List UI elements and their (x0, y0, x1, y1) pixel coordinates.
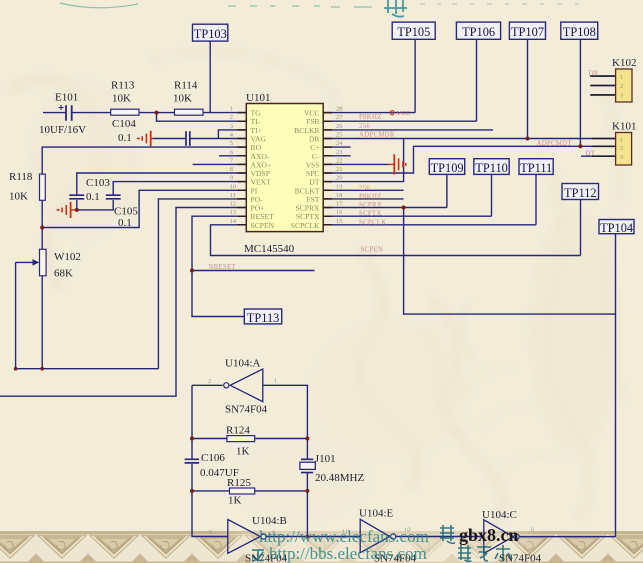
watermark row 2: bbs.elecfans.com (252, 550, 264, 561)
svg-text:gbx8.cn: gbx8.cn (459, 525, 519, 545)
top cut-off watermark remnants (60, 3, 372, 8)
svg-text:RO: RO (251, 143, 262, 152)
resistor R118 (40, 174, 46, 200)
svg-text:1: 1 (620, 74, 623, 81)
svg-text:10UF/16V: 10UF/16V (39, 124, 86, 136)
svg-text:C106: C106 (201, 452, 225, 464)
svg-text:SN74F04: SN74F04 (499, 553, 542, 563)
U101 dark pin stubs (238, 113, 333, 225)
svg-text:TP113: TP113 (247, 311, 280, 325)
svg-text:13: 13 (230, 209, 237, 216)
K102/K101 dark pin stubs (590, 76, 615, 156)
inverter U104:B (228, 520, 260, 554)
wire: pin 9 (VEXT) to C105 (113, 182, 246, 195)
K101 pin numbers (620, 136, 623, 161)
test point TP105 (392, 22, 435, 39)
svg-text:K101: K101 (612, 121, 636, 133)
svg-text:U104:B: U104:B (252, 515, 287, 527)
wire: U104:B output to U104:E input (267, 536, 361, 538)
wire: TP112 riser to SCPEN rail (580, 200, 582, 256)
test point TP103 (193, 24, 228, 41)
wire: pin 27 FSR to TP106 (323, 39, 476, 121)
svg-text:16: 16 (336, 209, 343, 216)
wire: pin 14 (SCPEN) jog to SCPEN rail (211, 225, 581, 256)
K102 pin numbers (620, 74, 623, 100)
test point TP108 (561, 22, 598, 39)
svg-text:21: 21 (336, 166, 343, 173)
inverter U104:A (points left) (230, 369, 263, 402)
wire: pin 6 (AXO-) stub (219, 155, 246, 157)
capacitor C104 (186, 131, 190, 146)
test point TP112 (562, 184, 599, 200)
wire: R124 row (192, 438, 307, 440)
svg-text:11: 11 (230, 192, 236, 199)
test point TP111 (519, 159, 553, 175)
svg-text:TP104: TP104 (600, 221, 633, 235)
svg-text:U101: U101 (246, 92, 270, 104)
svg-text:256: 256 (359, 123, 370, 130)
wire: pin 17 SCPRX to TP109 (323, 174, 447, 207)
wire: pin 7 (AXO+) stub (193, 163, 247, 165)
wire: pin 23 C- stub (323, 155, 350, 157)
svg-text:U104:E: U104:E (359, 508, 394, 520)
wire: pin 21 SPC riser to K101 pin 2 (323, 146, 615, 173)
svg-text:17: 17 (336, 201, 343, 208)
svg-text:26: 26 (336, 123, 343, 130)
wire: pin 19 BCLKT stub (323, 189, 403, 191)
wire: TP107 riser (527, 39, 529, 138)
svg-text:C105: C105 (114, 206, 138, 218)
svg-text:http://bbs.elecfans.com: http://bbs.elecfans.com (269, 544, 427, 563)
potentiometer W102 wiper arrow (16, 261, 34, 263)
capacitor C103 (69, 195, 84, 199)
test point TP110 (474, 159, 509, 175)
svg-text:FSR: FSR (306, 117, 320, 126)
wire: pin 22 VSS to ground (323, 163, 388, 165)
capacitor C106 (185, 459, 200, 463)
wire: R118/W102 node to pin 10 (PI) (42, 190, 246, 227)
wire: pin 3 (TI+) stub with jog down to pin 4 net (218, 130, 246, 139)
svg-text:1K: 1K (228, 495, 242, 507)
svg-text:TP111: TP111 (520, 161, 552, 175)
wire: main input net to pin 1 (TG) (43, 112, 246, 114)
svg-text:23: 23 (336, 149, 343, 156)
svg-text:TP110: TP110 (475, 161, 508, 175)
svg-text:DT: DT (309, 178, 319, 187)
svg-text:NRESET: NRESET (209, 264, 237, 271)
svg-text:12: 12 (230, 201, 237, 208)
svg-text:K102: K102 (612, 57, 636, 69)
wire: pin 20 DT riser to ADPCMDT rail (323, 139, 403, 182)
wire: R125 row (192, 490, 307, 492)
svg-text:10: 10 (230, 183, 237, 190)
wire: C103 bottom to ground node to C105 bottom (77, 200, 113, 210)
svg-text:TP112: TP112 (564, 186, 597, 200)
wire: pin 16 SCPTX to TP110 (323, 174, 491, 216)
wire: pin 13 (RESET) riser to NRESET and TP113 (192, 216, 246, 316)
wire: U104:A output net (192, 385, 223, 438)
svg-text:1K: 1K (236, 446, 250, 458)
svg-text:5: 5 (230, 140, 233, 147)
wire: SCPRX drop to TP104 loop and U104:C output (404, 208, 616, 537)
test point TP109 (429, 159, 464, 175)
wire: TP103 riser (209, 41, 211, 113)
test point TP104 (599, 220, 634, 234)
svg-text:1: 1 (274, 378, 277, 385)
svg-text:C104: C104 (112, 118, 136, 130)
svg-text:PO+: PO+ (251, 204, 265, 213)
U101 pin names right (291, 109, 321, 230)
test point TP107 (509, 22, 545, 39)
wire: C106 leads (191, 439, 193, 491)
svg-text:2: 2 (208, 378, 211, 385)
svg-text:DR: DR (589, 71, 599, 78)
U104 gate pin numbers (208, 378, 535, 537)
svg-text:2: 2 (620, 83, 623, 90)
svg-text:TI-: TI- (251, 117, 261, 126)
svg-text:20: 20 (336, 175, 343, 182)
connector K101 (616, 133, 632, 166)
svg-text:SCPRX: SCPRX (359, 202, 382, 209)
wire: pin 12 (PO+) riser to off-page left (0, 208, 246, 397)
svg-text:3: 3 (620, 154, 623, 161)
resistor R124 (227, 436, 255, 442)
wire: feedback column to U104:B output (306, 491, 308, 537)
resistor R125 (230, 488, 255, 494)
svg-text:VCC: VCC (397, 110, 411, 117)
svg-text:ADPCMDR: ADPCMDR (359, 131, 395, 138)
op-amp U101 body MC145540 (246, 104, 323, 232)
connector K102 (616, 69, 632, 102)
svg-text:TP103: TP103 (194, 27, 227, 41)
wire: K101 pin 3 stub (581, 155, 616, 157)
svg-text:10K: 10K (173, 93, 192, 105)
svg-text:25: 25 (336, 132, 343, 139)
inverter U104:E (360, 519, 390, 552)
svg-text:SCPCLK: SCPCLK (359, 219, 387, 226)
wire: J101 leads (306, 439, 308, 491)
wire: pin 18 FST stub (323, 198, 403, 200)
svg-text:20.48MHZ: 20.48MHZ (315, 472, 364, 484)
svg-text:C+: C+ (310, 143, 319, 152)
svg-text:U104:C: U104:C (482, 509, 517, 521)
svg-text:TP108: TP108 (563, 25, 596, 39)
capacitor C105 (106, 195, 121, 199)
wire: pin 26 BCLKR stub (323, 129, 493, 131)
resistor R113 (111, 109, 139, 115)
test point TP106 (456, 22, 500, 39)
svg-text:C103: C103 (86, 177, 110, 189)
wire: U104:B input (192, 491, 228, 537)
wire: U104:E output to U104:C input (396, 536, 484, 538)
svg-text:22: 22 (336, 157, 343, 164)
svg-text:TP106: TP106 (462, 25, 495, 39)
svg-text:3: 3 (620, 93, 623, 100)
svg-text:TP105: TP105 (397, 25, 430, 39)
wire: U104:A input from feedback column (263, 385, 308, 438)
U101 pin numbers right (336, 106, 343, 225)
svg-text:27: 27 (336, 114, 343, 121)
wire: NRESET stub (192, 270, 315, 272)
svg-text:SCPRX: SCPRX (295, 204, 320, 213)
svg-text:0.1: 0.1 (118, 132, 132, 144)
wire: K102 pin stubs (590, 76, 615, 95)
svg-text:R124: R124 (226, 425, 250, 437)
hanzi after row1 (440, 525, 455, 543)
wire: node R113/R114 down to pin 2 (TI-) (157, 113, 247, 122)
svg-text:9: 9 (230, 175, 233, 182)
svg-text:SCPTX: SCPTX (359, 211, 382, 218)
svg-text:14: 14 (230, 218, 237, 225)
washed middle of band (215, 531, 545, 563)
svg-text:2: 2 (230, 114, 233, 121)
svg-text:1: 1 (620, 136, 623, 143)
svg-text:15: 15 (336, 218, 343, 225)
svg-text:R118: R118 (9, 171, 33, 183)
svg-text:SN74F04: SN74F04 (225, 404, 268, 416)
svg-text:28: 28 (336, 106, 343, 113)
svg-text:10K: 10K (9, 191, 28, 203)
crystal J101 (301, 459, 313, 472)
ground at pin 22 VSS (389, 154, 406, 174)
wire: pin 8 (VDSP) to C103 (77, 173, 247, 195)
wire: pin 15 SCPCLK to TP111 (323, 174, 536, 224)
svg-text:U104:A: U104:A (225, 358, 261, 370)
svg-text:R114: R114 (174, 80, 198, 92)
svg-text:W102: W102 (54, 251, 81, 263)
capacitor E101 electrolytic (66, 105, 72, 120)
svg-text:68K: 68K (54, 268, 73, 280)
svg-text:ADPCMDT: ADPCMDT (537, 140, 573, 147)
svg-text:1: 1 (230, 106, 233, 113)
svg-text:J101: J101 (315, 453, 336, 465)
svg-text:0.1: 0.1 (118, 217, 132, 229)
svg-text:19: 19 (336, 183, 343, 190)
svg-text:0.1: 0.1 (86, 191, 100, 203)
svg-text:P8KHZ: P8KHZ (359, 114, 382, 121)
wire: pin 5 (RO) to R118 (42, 147, 246, 369)
svg-text:VEXT: VEXT (251, 178, 272, 187)
svg-text:R113: R113 (111, 80, 135, 92)
svg-text:10K: 10K (112, 93, 131, 105)
svg-text:256: 256 (359, 185, 370, 192)
svg-text:E101: E101 (55, 92, 78, 104)
hanzi after row2: dianzi ji (458, 545, 512, 561)
power symbol VCC (390, 111, 394, 115)
wire: TP108 riser to DT rail (579, 39, 581, 146)
wire: pin 11 (PO-) riser to W102 net (158, 199, 246, 369)
svg-text:8: 8 (230, 166, 233, 173)
svg-text:R125: R125 (227, 477, 251, 489)
potentiometer W102 body (40, 249, 47, 275)
resistor R114 (175, 109, 204, 115)
inverter U104:C (484, 520, 514, 554)
wire: pin 24 C+ stub (323, 146, 350, 148)
svg-text:TP109: TP109 (431, 161, 464, 175)
wire: U104:C output to right column (520, 536, 616, 538)
test point texts (194, 25, 633, 325)
ground at C104 (137, 131, 153, 147)
svg-text:SCPEN: SCPEN (361, 247, 384, 254)
svg-text:18: 18 (336, 192, 343, 199)
svg-text:3: 3 (209, 529, 212, 536)
svg-text:SCPEN: SCPEN (251, 221, 275, 230)
svg-text:DT: DT (586, 150, 596, 157)
U101 pin names left (251, 109, 275, 230)
svg-text:3: 3 (230, 123, 233, 130)
test point TP113 (244, 309, 281, 324)
svg-text:P8KHZ: P8KHZ (359, 193, 382, 200)
wire: pin 25 DR / ADPCMDT rail to K101 pin 1 (323, 138, 615, 140)
wire: W102 wiper and bottom to PO- net (16, 262, 159, 368)
wire: pin 4 (VAG) to C104 and ground (153, 138, 247, 140)
ground at C103/C105 (57, 202, 77, 218)
U101 pin numbers left (230, 106, 237, 225)
wire: pin 28 VCC to TP105 (323, 39, 415, 112)
svg-text:2: 2 (620, 145, 623, 152)
svg-text:24: 24 (336, 140, 343, 147)
svg-text:SCPCLK: SCPCLK (291, 221, 320, 230)
svg-text:TP107: TP107 (511, 25, 544, 39)
svg-text:MC145540: MC145540 (244, 243, 295, 255)
